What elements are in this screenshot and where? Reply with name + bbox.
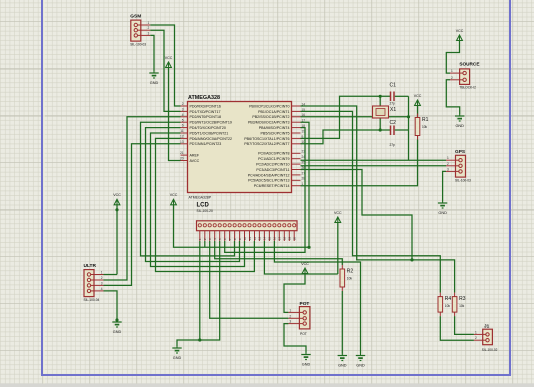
svg-text:10: 10 bbox=[243, 236, 247, 240]
svg-text:PC5/ADC5/SCL/PCINT13: PC5/ADC5/SCL/PCINT13 bbox=[248, 179, 289, 183]
svg-text:PD0/RXD/PCINT16: PD0/RXD/PCINT16 bbox=[190, 104, 221, 108]
svg-text:R2: R2 bbox=[347, 269, 354, 275]
svg-text:10k: 10k bbox=[422, 125, 428, 129]
svg-text:R4: R4 bbox=[445, 296, 452, 302]
svg-text:20: 20 bbox=[293, 236, 297, 240]
svg-text:1: 1 bbox=[451, 69, 453, 73]
svg-text:X1: X1 bbox=[390, 107, 396, 113]
svg-text:SIL-100-02: SIL-100-02 bbox=[482, 348, 498, 352]
svg-text:PD4/T0/XCK/PCINT20: PD4/T0/XCK/PCINT20 bbox=[190, 126, 226, 130]
svg-text:C1: C1 bbox=[390, 83, 397, 89]
svg-text:PC3/ADC3/PCINT11: PC3/ADC3/PCINT11 bbox=[256, 168, 289, 172]
svg-text:GND: GND bbox=[438, 211, 447, 215]
svg-text:SOURCE: SOURCE bbox=[459, 62, 479, 67]
svg-text:GND: GND bbox=[455, 124, 464, 128]
svg-text:15: 15 bbox=[268, 236, 272, 240]
svg-text:13: 13 bbox=[258, 236, 262, 240]
svg-text:PD6/AIN0/OC0A/PCINT22: PD6/AIN0/OC0A/PCINT22 bbox=[190, 137, 233, 141]
svg-text:VCC: VCC bbox=[165, 56, 173, 60]
svg-text:3: 3 bbox=[101, 281, 103, 285]
svg-text:2: 2 bbox=[101, 276, 103, 280]
svg-text:GPS: GPS bbox=[455, 149, 466, 155]
svg-text:R1: R1 bbox=[422, 117, 429, 123]
svg-text:6: 6 bbox=[182, 124, 184, 128]
svg-text:AREF: AREF bbox=[190, 154, 200, 158]
svg-text:2: 2 bbox=[289, 314, 291, 318]
svg-text:PC4/ADC4/SDA/PCINT12: PC4/ADC4/SDA/PCINT12 bbox=[248, 173, 290, 177]
svg-text:12: 12 bbox=[180, 135, 184, 139]
svg-text:LCD: LCD bbox=[197, 203, 210, 209]
svg-text:12: 12 bbox=[253, 236, 257, 240]
svg-text:3: 3 bbox=[289, 320, 291, 324]
svg-text:27p: 27p bbox=[390, 143, 396, 147]
svg-text:13: 13 bbox=[180, 140, 184, 144]
svg-text:PB5/SCK/PCINT5: PB5/SCK/PCINT5 bbox=[261, 131, 290, 135]
svg-text:PB0/ICP1/CLKO/PCINT0: PB0/ICP1/CLKO/PCINT0 bbox=[249, 104, 289, 108]
svg-text:PB7/TOSC2/XTAL2/PCINT7: PB7/TOSC2/XTAL2/PCINT7 bbox=[244, 142, 289, 146]
svg-text:19: 19 bbox=[288, 236, 292, 240]
svg-text:POT: POT bbox=[300, 301, 310, 307]
svg-text:PB4/MISO/PCINT4: PB4/MISO/PCINT4 bbox=[259, 126, 290, 130]
svg-text:1: 1 bbox=[447, 156, 449, 160]
svg-text:R3: R3 bbox=[459, 296, 466, 302]
svg-text:PC1/ADC1/PCINT9: PC1/ADC1/PCINT9 bbox=[258, 157, 289, 161]
svg-text:ATMEGA328P: ATMEGA328P bbox=[189, 195, 212, 199]
svg-text:GND: GND bbox=[173, 356, 182, 360]
svg-text:POT: POT bbox=[300, 332, 307, 336]
svg-text:14: 14 bbox=[263, 236, 267, 240]
svg-text:SIL-100-20: SIL-100-20 bbox=[197, 209, 213, 213]
svg-text:J1: J1 bbox=[484, 323, 490, 328]
svg-text:PB3/MOSI/OC2A/PCINT3: PB3/MOSI/OC2A/PCINT3 bbox=[248, 121, 290, 125]
svg-text:4: 4 bbox=[182, 113, 184, 117]
svg-text:10k: 10k bbox=[459, 304, 465, 308]
svg-text:GND: GND bbox=[150, 81, 159, 85]
svg-text:3: 3 bbox=[447, 167, 449, 171]
svg-text:GND: GND bbox=[356, 363, 365, 367]
svg-text:PD2/INT0/PCINT18: PD2/INT0/PCINT18 bbox=[190, 115, 222, 119]
svg-text:2: 2 bbox=[475, 336, 477, 340]
svg-text:VCC: VCC bbox=[113, 193, 121, 197]
svg-text:1: 1 bbox=[475, 330, 477, 334]
svg-text:20: 20 bbox=[180, 157, 184, 161]
svg-text:GSM: GSM bbox=[130, 14, 141, 20]
svg-text:TBLOCK-I2: TBLOCK-I2 bbox=[459, 86, 476, 90]
svg-text:SIL-100-03: SIL-100-03 bbox=[130, 43, 146, 47]
svg-text:11: 11 bbox=[248, 237, 252, 240]
svg-text:2: 2 bbox=[447, 162, 449, 166]
svg-text:17: 17 bbox=[278, 236, 282, 240]
svg-text:C2: C2 bbox=[390, 120, 397, 126]
svg-text:VCC: VCC bbox=[170, 193, 178, 197]
svg-text:PD7/AIN1/PCINT23: PD7/AIN1/PCINT23 bbox=[190, 142, 222, 146]
svg-text:10k: 10k bbox=[347, 277, 353, 281]
svg-text:ULTR: ULTR bbox=[84, 263, 97, 269]
svg-text:4: 4 bbox=[101, 287, 103, 291]
svg-text:ATMEGA328: ATMEGA328 bbox=[188, 95, 220, 101]
svg-text:SIL-100-03: SIL-100-03 bbox=[455, 179, 471, 183]
svg-text:GND: GND bbox=[302, 362, 311, 366]
svg-text:2: 2 bbox=[182, 102, 184, 106]
svg-text:21: 21 bbox=[180, 151, 184, 155]
svg-text:2: 2 bbox=[451, 76, 453, 80]
svg-text:SIL-100-04: SIL-100-04 bbox=[84, 298, 100, 302]
svg-text:16: 16 bbox=[273, 236, 277, 240]
svg-text:PC6/RESET/PCINT14: PC6/RESET/PCINT14 bbox=[254, 184, 290, 188]
svg-text:2: 2 bbox=[148, 26, 150, 30]
svg-text:PD5/T1/OC0B/PCINT21: PD5/T1/OC0B/PCINT21 bbox=[190, 131, 229, 135]
svg-text:PB6/TOSC1/XTAL1/PCINT6: PB6/TOSC1/XTAL1/PCINT6 bbox=[244, 137, 289, 141]
svg-text:PC0/ADC0/PCINT8: PC0/ADC0/PCINT8 bbox=[258, 152, 289, 156]
svg-text:VCC: VCC bbox=[456, 29, 464, 33]
svg-text:1: 1 bbox=[101, 271, 103, 275]
svg-text:VCC: VCC bbox=[334, 211, 342, 215]
svg-text:AVCC: AVCC bbox=[190, 159, 200, 163]
svg-text:1: 1 bbox=[148, 21, 150, 25]
svg-text:PB2/SS/OC1B/PCINT2: PB2/SS/OC1B/PCINT2 bbox=[252, 115, 289, 119]
svg-text:GND: GND bbox=[113, 330, 122, 334]
svg-text:VCC: VCC bbox=[414, 94, 422, 98]
svg-text:11: 11 bbox=[180, 129, 184, 133]
svg-text:PD1/TXD/PCINT17: PD1/TXD/PCINT17 bbox=[190, 110, 221, 114]
svg-text:PB1/OC1A/PCINT1: PB1/OC1A/PCINT1 bbox=[258, 110, 289, 114]
svg-text:GND: GND bbox=[338, 363, 347, 367]
svg-text:3: 3 bbox=[148, 31, 150, 35]
svg-text:5: 5 bbox=[182, 118, 184, 122]
svg-text:10k: 10k bbox=[445, 304, 451, 308]
svg-text:PC2/ADC2/PCINT10: PC2/ADC2/PCINT10 bbox=[256, 163, 289, 167]
svg-text:PD3/INT1/OC2B/PCINT19: PD3/INT1/OC2B/PCINT19 bbox=[190, 121, 232, 125]
svg-text:27p: 27p bbox=[390, 102, 396, 106]
svg-text:18: 18 bbox=[283, 236, 287, 240]
svg-text:1: 1 bbox=[289, 308, 291, 312]
svg-text:3: 3 bbox=[182, 108, 184, 112]
